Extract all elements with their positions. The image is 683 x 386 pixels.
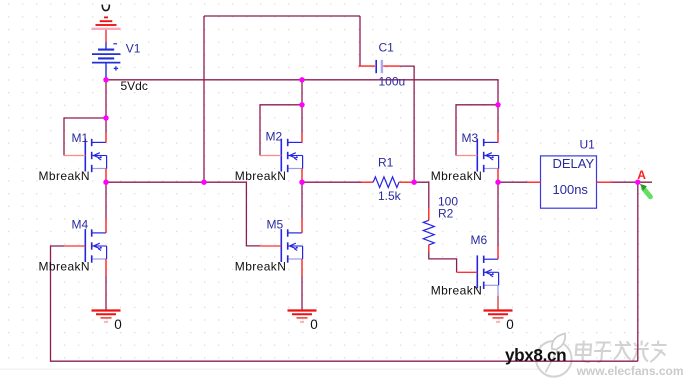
svg-text:0: 0 [310, 317, 318, 332]
wire M6 drain up to node A [497, 182, 499, 246]
svg-text:MbreakN: MbreakN [39, 259, 90, 273]
svg-text:100u: 100u [379, 75, 406, 89]
battery V1 [92, 43, 120, 80]
wire feedback vertical at A [637, 182, 639, 361]
transistor M2 [260, 133, 303, 182]
transistor M4 [64, 218, 107, 276]
node junction node A [635, 180, 640, 185]
svg-text:M4: M4 [72, 218, 89, 232]
wire node2 rail to R1 [302, 181, 362, 183]
node junction battery [103, 77, 108, 82]
probe marker arrow [640, 184, 651, 197]
transistor M5 [260, 218, 303, 276]
wire R2 bottom to M6 gate [429, 252, 457, 273]
wire M2 supply branch [301, 80, 303, 105]
svg-text:M6: M6 [471, 233, 488, 247]
delay block U1 [527, 156, 612, 208]
svg-text:MbreakN: MbreakN [235, 169, 286, 183]
svg-text:DELAY: DELAY [553, 156, 595, 171]
node junction M2 supply [299, 77, 304, 82]
wire top loop right vertical to C1 [359, 16, 361, 66]
transistor M3 [456, 133, 499, 182]
wire 5Vdc rail [106, 80, 498, 105]
wire U1 output to A [612, 181, 652, 183]
logo chinese characters [575, 341, 667, 363]
svg-text:M3: M3 [462, 131, 479, 145]
svg-text:M1: M1 [72, 131, 89, 145]
svg-text:MbreakN: MbreakN [39, 169, 90, 183]
svg-text:V1: V1 [126, 41, 141, 55]
transistor M1 [64, 133, 107, 182]
node junction M1 top [103, 115, 108, 120]
svg-text:R1: R1 [378, 156, 394, 170]
wire node A to U1 [498, 181, 527, 183]
svg-text:100ns: 100ns [553, 182, 589, 197]
svg-text:www.elecfans.com: www.elecfans.com [576, 364, 683, 378]
wire node3 to R2 [414, 182, 429, 207]
wire M2 gate loop [260, 105, 302, 156]
svg-text:MbreakN: MbreakN [431, 169, 482, 183]
ground under M6 [484, 311, 513, 323]
wire node1 vertical x=204 [203, 16, 205, 182]
transistor M6 [457, 247, 499, 297]
svg-text:0: 0 [506, 317, 514, 332]
node junction M3 loop [495, 102, 500, 107]
resistor R2 [423, 208, 434, 252]
svg-text:0: 0 [114, 317, 122, 332]
ground under M4 [92, 311, 121, 323]
svg-text:R2: R2 [438, 207, 454, 221]
capacitor C1 [359, 60, 400, 73]
wire node1 rail to M5 gate [106, 182, 260, 246]
svg-text:A: A [637, 168, 646, 182]
node junction node A left [495, 180, 500, 185]
ground under M5 [288, 311, 317, 323]
node junction node1 x204 [201, 180, 206, 185]
svg-text:5Vdc: 5Vdc [121, 79, 148, 93]
svg-text:M2: M2 [266, 130, 283, 144]
wire battery to M1 drain [105, 80, 107, 133]
wire M5 drain to node2 [301, 182, 303, 218]
wire top loop horizontal node1 [204, 15, 360, 17]
wire feedback bottom rail [51, 246, 638, 361]
wire C1 right vertical to node3 [400, 66, 415, 182]
svg-text:MbreakN: MbreakN [235, 259, 286, 273]
wire M2 drain stub [301, 105, 303, 133]
resistor R1 [361, 177, 414, 188]
svg-text:U1: U1 [580, 137, 596, 151]
node junction node1 mid [103, 180, 108, 185]
logo elecfans circle [536, 334, 572, 377]
svg-text:MbreakN: MbreakN [431, 284, 482, 298]
node junction node3 [411, 180, 416, 185]
power symbol VCC [92, 5, 121, 43]
svg-text:M5: M5 [267, 218, 284, 232]
wire M6 source to ground [497, 296, 499, 310]
svg-text:1.5k: 1.5k [378, 189, 402, 203]
node junction node2 [299, 180, 304, 185]
wire M3 gate loop [456, 105, 498, 156]
wire M3 drain stub [497, 105, 499, 133]
svg-text:C1: C1 [379, 41, 395, 55]
wire M1 gate loop [64, 118, 106, 156]
wire M4 drain to node1 [105, 182, 107, 218]
node junction M2 loop [299, 102, 304, 107]
wire M5 source to ground [301, 276, 303, 310]
wire M4 source to ground [105, 276, 107, 310]
svg-text:ybx8.cn: ybx8.cn [505, 345, 566, 365]
